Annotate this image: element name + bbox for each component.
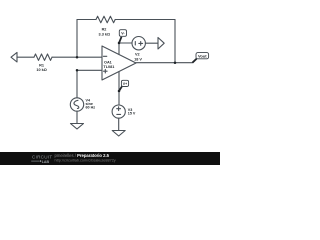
- op-amp OA1 body: [102, 46, 136, 80]
- node noninverting corner: [76, 69, 79, 72]
- svg-text:http://circuitlab.com/c/bsakuz: http://circuitlab.com/c/bsakuze8872y: [55, 158, 116, 162]
- source V4 sine circle: [70, 98, 83, 111]
- resistor R1: [34, 54, 52, 60]
- svg-text:TL081: TL081: [103, 65, 114, 69]
- source V3 circle: [112, 105, 125, 118]
- wire V2 to ground right: [145, 42, 157, 44]
- wire top left to R2: [77, 19, 96, 21]
- wire feedback vertical right: [174, 20, 176, 63]
- V4 sine symbol: [74, 100, 79, 108]
- svg-text:CIRCUIT: CIRCUIT: [32, 155, 52, 160]
- svg-text:V2: V2: [135, 53, 140, 57]
- source V2 circle: [132, 37, 145, 50]
- footer bar: [0, 152, 220, 165]
- wire V3 to ground: [118, 118, 120, 130]
- ground below V4: [71, 124, 84, 130]
- flag V-: [119, 30, 127, 43]
- svg-text:10 kΩ: 10 kΩ: [36, 68, 46, 72]
- V2 minus sign (rotated): [134, 42, 136, 46]
- op-amp V- supply pin wire: [118, 43, 120, 55]
- wire V- node to V2: [119, 42, 132, 44]
- wire V4 vertical: [76, 70, 78, 98]
- svg-text:60 Hz: 60 Hz: [86, 106, 96, 110]
- node output junction: [174, 61, 177, 64]
- wire V4 to ground: [76, 111, 78, 123]
- wire terminal to R1: [17, 56, 34, 58]
- svg-text:LAB: LAB: [42, 160, 50, 164]
- op-amp V+ supply pin wire: [118, 72, 120, 92]
- svg-text:R2: R2: [102, 27, 107, 31]
- flag V+: [119, 80, 129, 91]
- ground right of V2: [158, 38, 164, 50]
- node V+ supply: [118, 90, 121, 93]
- op-amp plus sign: [104, 69, 108, 73]
- svg-text:15 V: 15 V: [128, 112, 136, 116]
- footer CircuitLab logo: [31, 155, 52, 164]
- wire feedback vertical left: [76, 20, 78, 58]
- labels: [36, 27, 142, 115]
- V2 plus sign: [139, 42, 143, 46]
- wire V+ node to V3: [118, 91, 120, 105]
- op-amp minus sign: [103, 55, 106, 57]
- V3 minus sign: [117, 113, 121, 115]
- node inverting input junction: [76, 56, 79, 59]
- svg-text:V+: V+: [123, 82, 127, 86]
- svg-text:Vout: Vout: [198, 53, 207, 58]
- V3 plus sign: [117, 107, 121, 111]
- flag Vout: [192, 53, 208, 63]
- ground below V3: [112, 131, 125, 137]
- junction node dots: [76, 42, 177, 93]
- wire noninverting input: [77, 69, 102, 71]
- node V- supply: [118, 42, 121, 45]
- wire R2 to top right corner: [115, 19, 175, 21]
- wire output: [136, 62, 192, 64]
- svg-text:3.3 kΩ: 3.3 kΩ: [99, 32, 111, 36]
- wire R1 to inverting input: [52, 56, 102, 58]
- terminal input port: [11, 52, 17, 62]
- svg-text:R1: R1: [39, 64, 44, 68]
- resistor R2: [96, 16, 115, 23]
- svg-text:18 V: 18 V: [134, 57, 142, 61]
